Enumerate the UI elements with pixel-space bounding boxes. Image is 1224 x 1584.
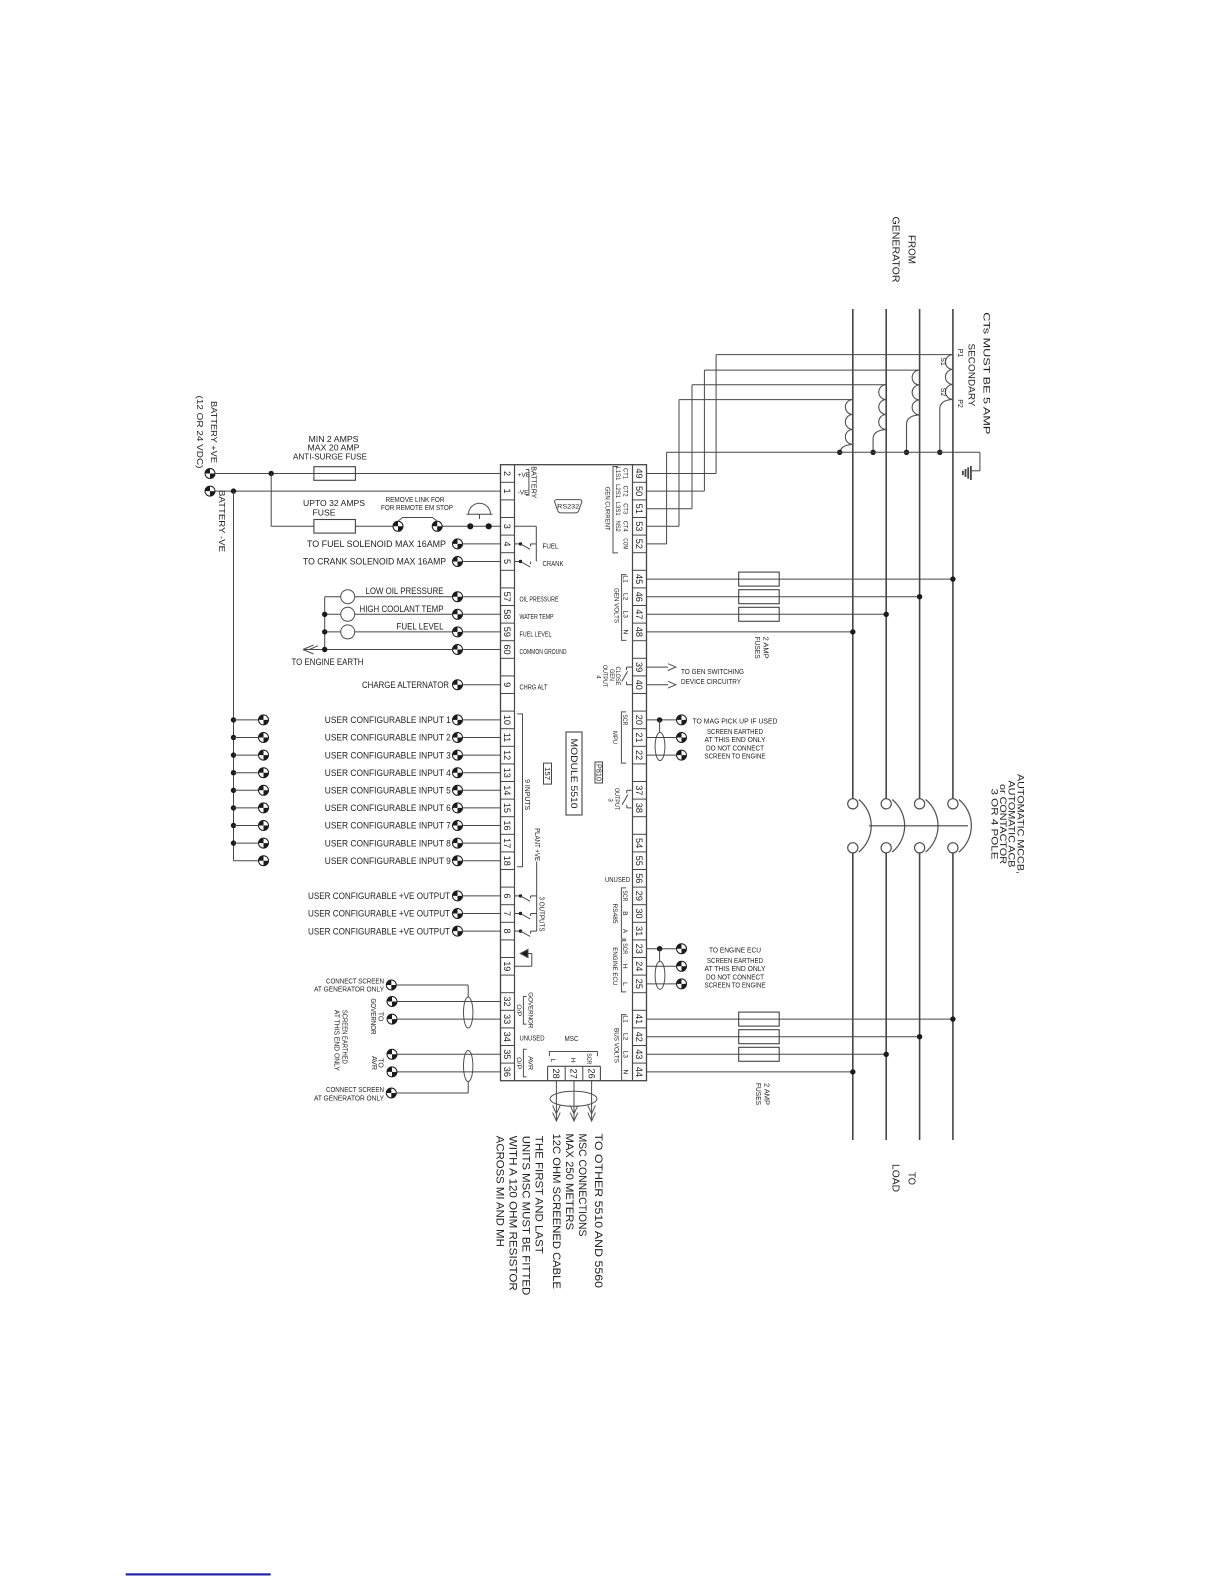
user input 3 wiring	[231, 752, 236, 757]
svg-text:MAX 20 AMP: MAX 20 AMP	[308, 444, 360, 453]
svg-text:H: H	[569, 1058, 576, 1063]
svg-text:COMMON GROUND: COMMON GROUND	[520, 647, 567, 656]
svg-text:35: 35	[502, 1049, 512, 1059]
svg-text:CTs MUST BE 5 AMP: CTs MUST BE 5 AMP	[981, 312, 992, 434]
svg-text:FUSE: FUSE	[313, 508, 336, 517]
svg-text:36: 36	[502, 1067, 512, 1077]
svg-text:34: 34	[502, 1032, 512, 1042]
CT1 coil	[945, 355, 952, 400]
breaker linkage line	[869, 825, 968, 827]
svg-text:UPTO 32 AMPS: UPTO 32 AMPS	[303, 499, 365, 508]
CT2 S2 hook	[907, 415, 920, 453]
svg-text:N: N	[621, 630, 628, 635]
svg-text:CT2: CT2	[621, 486, 628, 497]
battery +VE terminal symbol	[205, 469, 215, 479]
gen volts fuse 46	[739, 590, 780, 604]
bus volts wire 44	[647, 1071, 853, 1073]
svg-text:4: 4	[595, 675, 602, 679]
RS485 bracket	[621, 888, 626, 939]
svg-text:SECONDARY: SECONDARY	[966, 344, 977, 408]
governor cable screen ellipse	[464, 997, 473, 1028]
svg-text:AT GENERATOR ONLY: AT GENERATOR ONLY	[314, 1093, 384, 1102]
wire link to emergency stop button	[442, 525, 500, 527]
MPU wire 20	[647, 719, 677, 721]
svg-text:MIN 2 AMPS: MIN 2 AMPS	[309, 435, 359, 444]
engine ECU wire 23	[647, 948, 677, 950]
svg-text:38: 38	[634, 803, 644, 813]
svg-text:51: 51	[634, 504, 644, 514]
svg-text:MSC CONNECTIONS: MSC CONNECTIONS	[576, 1134, 588, 1237]
output 6 fixed contact	[530, 896, 532, 899]
svg-text:USER CONFIGURABLE +VE OUTPUT: USER CONFIGURABLE +VE OUTPUT	[308, 891, 450, 901]
wire battery -VE to terminal 1	[215, 490, 501, 492]
battery group bracket	[526, 470, 529, 496]
svg-text:NS2: NS2	[614, 521, 621, 532]
svg-text:39: 39	[634, 662, 644, 672]
svg-text:A: A	[621, 929, 628, 934]
bus volts bracket	[622, 1015, 627, 1081]
MPU connection 21	[677, 733, 687, 743]
connect screen bottom connection	[386, 1088, 396, 1098]
svg-text:AVR: AVR	[526, 1056, 533, 1070]
output 8 fixed contact	[530, 931, 532, 934]
ECU screen drop	[659, 949, 661, 962]
engine ECU connection 25	[677, 979, 687, 989]
svg-text:MODULE 5510: MODULE 5510	[569, 739, 580, 809]
engine ECU wire 25	[647, 983, 677, 985]
svg-text:L2: L2	[621, 593, 628, 601]
svg-text:AT GENERATOR ONLY: AT GENERATOR ONLY	[314, 985, 384, 994]
wire to terminal 59	[463, 631, 501, 633]
engine ECU connection 23	[677, 944, 687, 954]
svg-text:31: 31	[634, 926, 644, 936]
svg-text:BATTERY -VE: BATTERY -VE	[217, 490, 226, 553]
AVR bracket	[523, 1049, 526, 1077]
svg-text:10: 10	[502, 715, 512, 725]
svg-text:CT1: CT1	[621, 468, 628, 479]
svg-text:5: 5	[502, 559, 512, 564]
high coolant temp sender	[341, 607, 355, 621]
svg-text:13: 13	[502, 768, 512, 778]
svg-text:53: 53	[634, 521, 644, 531]
CT3 coil	[879, 385, 886, 430]
generator bus line L1	[852, 309, 854, 799]
svg-text:46: 46	[634, 592, 644, 602]
svg-text:P2: P2	[956, 399, 963, 408]
wire oil pressure sender to connection	[355, 596, 453, 598]
svg-text:CHARGE ALTERNATOR: CHARGE ALTERNATOR	[362, 680, 449, 690]
wire battery +VE to terminal 2	[215, 473, 501, 475]
governor wire 33	[387, 1014, 397, 1024]
wire screen to AVR cable	[396, 1092, 468, 1094]
svg-text:14: 14	[502, 785, 512, 795]
output 6 contact blade	[521, 896, 531, 901]
CT4 S2 hook	[840, 444, 853, 453]
wire to terminal 4	[463, 543, 501, 545]
svg-text:L3: L3	[621, 611, 628, 619]
output 6 contact stub	[515, 895, 521, 897]
wire terminal 53 to CT4	[647, 525, 680, 527]
svg-text:50: 50	[634, 486, 644, 496]
fuel level sender	[341, 625, 355, 639]
user input 2 wiring	[231, 735, 236, 740]
CT4 S2 junction	[837, 450, 842, 455]
gen current bracket	[613, 467, 618, 553]
remote stop link connection 2	[432, 521, 442, 531]
svg-text:TO: TO	[906, 1172, 917, 1185]
svg-text:SCREEN TO ENGINE: SCREEN TO ENGINE	[705, 981, 766, 990]
svg-text:L2S1: L2S1	[614, 484, 621, 498]
svg-text:29: 29	[634, 891, 644, 901]
svg-text:MPU: MPU	[611, 731, 618, 744]
bus volts wire 43	[647, 1053, 887, 1055]
bus volts fuse 41	[739, 1012, 780, 1026]
AVR wire 36	[387, 1067, 397, 1077]
earth symbol	[970, 466, 972, 480]
gen volts wire 47	[647, 613, 887, 615]
svg-text:4: 4	[502, 541, 512, 546]
svg-text:GEN CURRENT: GEN CURRENT	[603, 487, 610, 531]
svg-text:MAX 250 METERS: MAX 250 METERS	[563, 1134, 575, 1231]
svg-text:CRANK: CRANK	[543, 559, 564, 568]
MSC bracket	[549, 1052, 597, 1057]
wire to terminal 9	[463, 684, 501, 686]
battery -VE input bus	[233, 491, 235, 861]
svg-text:55: 55	[634, 856, 644, 866]
svg-text:40: 40	[634, 680, 644, 690]
engine ECU connection 24	[677, 961, 687, 971]
AVR cable screen ellipse	[464, 1051, 473, 1082]
low oil pressure sender	[341, 590, 355, 604]
svg-text:WATER TEMP: WATER TEMP	[520, 612, 554, 621]
svg-text:57: 57	[502, 592, 512, 602]
svg-text:FUSES: FUSES	[754, 1083, 763, 1105]
svg-text:UNUSED: UNUSED	[605, 875, 630, 884]
generator bus line N	[952, 309, 954, 799]
MSC cable screen ellipse	[550, 1091, 597, 1106]
svg-text:48: 48	[634, 627, 644, 637]
svg-text:FROM: FROM	[906, 235, 917, 264]
svg-text:MSC: MSC	[565, 1036, 579, 1043]
common ground connection	[453, 645, 463, 655]
svg-text:58: 58	[502, 609, 512, 619]
svg-text:GENERATOR: GENERATOR	[889, 217, 900, 283]
svg-text:2: 2	[502, 471, 512, 476]
svg-text:TO ENGINE EARTH: TO ENGINE EARTH	[292, 657, 364, 667]
svg-text:ACROSS MI AND MH: ACROSS MI AND MH	[493, 1136, 505, 1247]
svg-text:6: 6	[502, 893, 512, 898]
fuel fixed contact	[530, 544, 532, 547]
svg-text:GEN VOLTS: GEN VOLTS	[612, 588, 619, 623]
close gen output arrow 40	[647, 684, 669, 686]
svg-text:O/P: O/P	[515, 1057, 522, 1070]
output 7 contact blade	[521, 914, 531, 919]
svg-text:USER CONFIGURABLE INPUT 6: USER CONFIGURABLE INPUT 6	[325, 803, 451, 813]
MPU wire 21	[647, 737, 677, 739]
svg-text:THE FIRST AND LAST: THE FIRST AND LAST	[533, 1136, 545, 1255]
svg-text:L1S1: L1S1	[614, 467, 621, 481]
bus volts fuse 42	[739, 1030, 780, 1044]
svg-text:3: 3	[502, 524, 512, 529]
svg-text:SCR: SCR	[621, 943, 628, 954]
svg-text:N: N	[621, 1070, 628, 1075]
svg-text:ENGINE ECU: ENGINE ECU	[611, 947, 618, 985]
wire to terminal 58	[463, 613, 501, 615]
svg-text:12C OHM SCREENED CABLE: 12C OHM SCREENED CABLE	[550, 1134, 562, 1289]
svg-text:S1: S1	[939, 357, 946, 366]
wire fuse to link	[355, 525, 393, 527]
crank contact blade	[521, 562, 531, 567]
fuel level connection	[453, 627, 463, 637]
CT3 S2 hook	[873, 429, 886, 452]
bus volts fuse 43	[739, 1047, 780, 1061]
svg-text:59: 59	[502, 627, 512, 637]
module 5510 outline	[501, 465, 647, 1081]
svg-text:52: 52	[634, 539, 644, 549]
svg-text:USER CONFIGURABLE INPUT 4: USER CONFIGURABLE INPUT 4	[325, 768, 451, 778]
svg-text:USER CONFIGURABLE INPUT 3: USER CONFIGURABLE INPUT 3	[325, 750, 451, 760]
svg-text:FUEL: FUEL	[543, 542, 559, 551]
svg-text:USER CONFIGURABLE INPUT 1: USER CONFIGURABLE INPUT 1	[325, 715, 451, 725]
wire screen to governor cable	[396, 984, 468, 986]
right terminal strip inner line	[632, 465, 634, 1081]
CT common bus	[667, 451, 980, 453]
svg-text:37: 37	[634, 785, 644, 795]
wire to terminal 5	[463, 561, 501, 563]
junction on +VE wire	[269, 471, 274, 476]
svg-text:RS485: RS485	[611, 904, 618, 924]
ECU cable screen ellipse	[655, 961, 665, 989]
terminal 19 internal arrow	[515, 965, 532, 967]
svg-text:17: 17	[502, 838, 512, 848]
svg-text:L: L	[549, 1059, 556, 1063]
svg-text:CT4: CT4	[621, 521, 628, 532]
svg-text:GEN: GEN	[608, 669, 615, 681]
svg-text:CT3: CT3	[621, 503, 628, 514]
MPU screen drop	[659, 720, 661, 733]
svg-text:54: 54	[634, 838, 644, 848]
svg-text:3 OUTPUTS: 3 OUTPUTS	[537, 897, 544, 932]
svg-text:47: 47	[634, 609, 644, 619]
connect screen top connection	[386, 980, 396, 990]
engine ECU wire 24	[647, 965, 677, 967]
RS232 connector symbol	[555, 500, 582, 513]
svg-text:AVR: AVR	[370, 1056, 377, 1070]
svg-text:H: H	[621, 964, 628, 969]
svg-text:USER CONFIGURABLE INPUT 7: USER CONFIGURABLE INPUT 7	[325, 821, 451, 831]
svg-text:USER CONFIGURABLE +VE OUTPUT: USER CONFIGURABLE +VE OUTPUT	[308, 909, 450, 919]
fuel contact stub	[515, 543, 521, 545]
fuel contact blade	[521, 544, 531, 549]
svg-text:60: 60	[502, 644, 512, 654]
9 inputs bracket	[517, 714, 522, 867]
svg-text:L1: L1	[621, 575, 628, 583]
svg-text:56: 56	[634, 873, 644, 883]
svg-text:USER CONFIGURABLE INPUT 2: USER CONFIGURABLE INPUT 2	[325, 733, 451, 743]
svg-text:23: 23	[634, 944, 644, 954]
gen volts wire 46	[647, 596, 920, 598]
svg-text:16: 16	[502, 820, 512, 830]
output 7 fixed contact	[530, 914, 532, 917]
svg-text:L3: L3	[621, 1051, 628, 1059]
svg-text:TO FUEL SOLENOID MAX 16AMP: TO FUEL SOLENOID MAX 16AMP	[307, 539, 446, 549]
svg-text:SCR: SCR	[621, 890, 628, 901]
svg-text:BATTERY +VE: BATTERY +VE	[209, 401, 218, 464]
svg-text:9: 9	[502, 682, 512, 687]
wire fuel sender to connection	[355, 631, 453, 633]
gen volts fuse 45	[739, 572, 780, 586]
svg-text:SCREEN TO ENGINE: SCREEN TO ENGINE	[705, 752, 766, 761]
user input 7 wiring	[231, 823, 236, 828]
svg-text:21: 21	[634, 732, 644, 742]
svg-text:TO CRANK SOLENOID MAX 16AMP: TO CRANK SOLENOID MAX 16AMP	[303, 557, 446, 567]
svg-text:7: 7	[502, 911, 512, 916]
svg-text:1: 1	[502, 489, 512, 494]
CT2 S2 junction	[904, 450, 909, 455]
svg-text:FUSES: FUSES	[753, 637, 762, 659]
svg-text:3: 3	[607, 798, 614, 802]
svg-text:RS232: RS232	[557, 504, 579, 511]
svg-text:44: 44	[634, 1067, 644, 1077]
svg-text:TO ENGINE ECU: TO ENGINE ECU	[709, 946, 761, 955]
svg-text:24: 24	[634, 961, 644, 971]
svg-text:PLANT +VE: PLANT +VE	[533, 828, 540, 861]
gen volts fuse 47	[739, 607, 780, 621]
removable link	[398, 518, 437, 522]
plant +VE rail to output contacts	[536, 862, 538, 932]
svg-text:CHRG ALT: CHRG ALT	[520, 682, 548, 691]
user input 9 wiring	[259, 856, 269, 866]
AVR wire 35	[387, 1049, 397, 1059]
svg-text:FUEL LEVEL: FUEL LEVEL	[397, 621, 444, 631]
svg-text:WITH A 120 OHM RESISTOR: WITH A 120 OHM RESISTOR	[506, 1136, 518, 1291]
svg-text:42: 42	[634, 1032, 644, 1042]
svg-text:33: 33	[502, 1014, 512, 1024]
svg-text:O/P: O/P	[515, 1004, 522, 1017]
CT common earth drop	[979, 452, 981, 471]
crank contact stub	[515, 561, 521, 563]
svg-text:SCREEN EARTHED: SCREEN EARTHED	[340, 1010, 347, 1064]
battery -VE terminal symbol	[205, 486, 215, 496]
fuel solenoid connection	[453, 539, 463, 549]
157 box	[544, 763, 552, 784]
svg-text:8: 8	[502, 929, 512, 934]
CT4 coil	[845, 400, 852, 445]
svg-text:20: 20	[634, 715, 644, 725]
gen volts wire 45	[647, 578, 953, 580]
svg-text:AT THIS END ONLY: AT THIS END ONLY	[333, 1010, 340, 1071]
svg-text:43: 43	[634, 1049, 644, 1059]
svg-text:USER CONFIGURABLE INPUT 8: USER CONFIGURABLE INPUT 8	[325, 838, 451, 848]
junction on -VE wire	[231, 488, 236, 493]
svg-text:DEVICE CIRCUITRY: DEVICE CIRCUITRY	[681, 677, 741, 686]
svg-text:P1: P1	[956, 349, 963, 358]
MPU connection 20	[677, 715, 687, 725]
P810 box	[595, 762, 603, 783]
anti-surge fuse	[314, 467, 356, 481]
generator bus line L3	[919, 309, 921, 799]
module 5510 box	[566, 732, 582, 815]
svg-text:OIL PRESSURE: OIL PRESSURE	[520, 594, 559, 603]
user input 8 wiring	[231, 840, 236, 845]
left strip row dividers	[501, 481, 515, 483]
svg-text:32: 32	[502, 996, 512, 1006]
crank solenoid connection	[453, 557, 463, 567]
generator bus line L2	[885, 309, 887, 799]
wire terminal 51 to CT3	[647, 508, 693, 510]
svg-text:27: 27	[569, 1068, 579, 1078]
svg-text:157: 157	[543, 767, 552, 780]
MSC arrows	[553, 1113, 561, 1121]
MSC wires down	[555, 1081, 557, 1120]
svg-text:P810: P810	[594, 764, 603, 781]
svg-text:LOW OIL PRESSURE: LOW OIL PRESSURE	[366, 586, 444, 596]
svg-text:USER CONFIGURABLE +VE OUTPUT: USER CONFIGURABLE +VE OUTPUT	[308, 926, 450, 936]
MPU bracket	[621, 712, 626, 763]
svg-text:26: 26	[586, 1068, 596, 1078]
water temp connection	[453, 609, 463, 619]
footer link line	[126, 1573, 271, 1575]
svg-text:S2: S2	[939, 388, 946, 397]
engine earth arrow	[303, 645, 318, 654]
svg-text:B: B	[621, 911, 628, 916]
engine ECU bracket	[621, 941, 626, 992]
sender common rail	[324, 597, 326, 650]
svg-text:GOVERNOR: GOVERNOR	[526, 992, 533, 1028]
wire coolant sender to connection	[355, 613, 453, 615]
svg-text:BUS VOLTS: BUS VOLTS	[612, 1028, 619, 1063]
MPU cable screen ellipse	[655, 732, 665, 760]
user input 6 wiring	[231, 805, 236, 810]
svg-text:L3S1: L3S1	[614, 502, 621, 516]
svg-text:COM: COM	[621, 538, 628, 549]
output 8 contact stub	[515, 930, 521, 932]
gen volts bracket	[622, 575, 627, 641]
output 3 contact	[627, 789, 632, 791]
svg-text:TO: TO	[377, 1012, 384, 1022]
user input 1 wiring	[231, 717, 236, 722]
close gen output arrow 39	[647, 666, 669, 668]
svg-text:FOR REMOTE EM STOP: FOR REMOTE EM STOP	[381, 503, 453, 512]
wire terminal 49 to CT1	[647, 473, 717, 475]
svg-text:UNUSED: UNUSED	[520, 1033, 545, 1042]
svg-text:30: 30	[634, 908, 644, 918]
breaker pole circles	[848, 799, 858, 809]
svg-text:L2: L2	[621, 1033, 628, 1041]
svg-text:GOVERNOR: GOVERNOR	[369, 999, 376, 1035]
svg-text:USER CONFIGURABLE INPUT 9: USER CONFIGURABLE INPUT 9	[325, 856, 451, 866]
svg-text:11: 11	[502, 733, 512, 743]
svg-text:FUEL LEVEL: FUEL LEVEL	[520, 630, 552, 639]
close gen output contact	[627, 666, 633, 668]
emergency stop button	[469, 503, 491, 514]
CT3 S2 junction	[870, 450, 875, 455]
bus volts wire 41	[647, 1018, 953, 1020]
svg-text:15: 15	[502, 803, 512, 813]
svg-text:12: 12	[502, 750, 512, 760]
svg-text:L1: L1	[621, 1015, 628, 1023]
svg-text:3 OR 4 POLE: 3 OR 4 POLE	[990, 789, 1000, 860]
svg-text:SCR: SCR	[621, 714, 628, 725]
governor wire 32	[387, 997, 397, 1007]
svg-text:TO MAG PICK UP IF USED: TO MAG PICK UP IF USED	[693, 717, 778, 726]
crank fixed contact	[530, 562, 532, 565]
svg-text:9 INPUTS: 9 INPUTS	[523, 779, 530, 810]
MPU connection 22	[677, 750, 687, 760]
svg-text:41: 41	[634, 1014, 644, 1024]
svg-text:LOAD: LOAD	[889, 1164, 900, 1192]
wire terminal 52 to CT common	[647, 543, 667, 545]
